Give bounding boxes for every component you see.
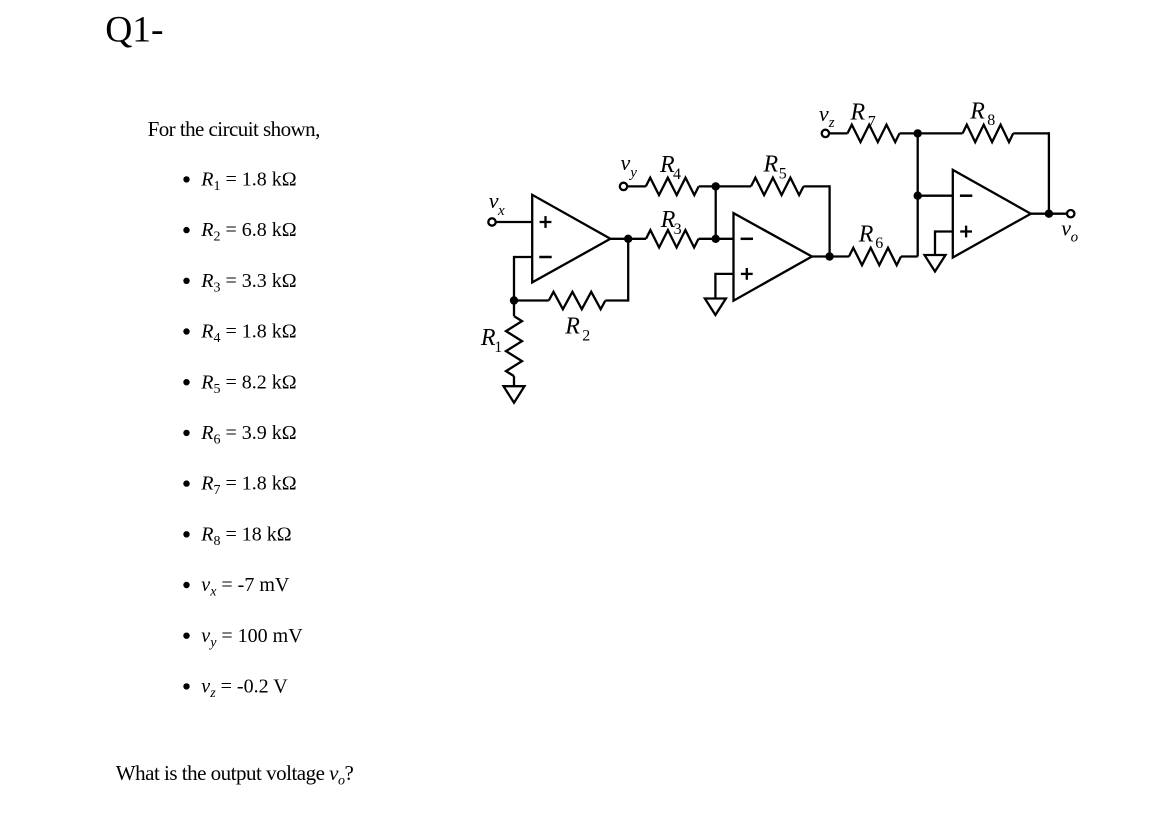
resistor R5 — [751, 178, 804, 195]
wire node C to R5 — [716, 185, 751, 187]
wire node F to R8 — [918, 132, 963, 134]
wire R8 to feedback corner — [1013, 132, 1049, 134]
svg-text:7: 7 — [868, 113, 876, 130]
wire vz to R7 — [829, 132, 847, 134]
resistor R7 — [848, 125, 900, 142]
svg-text:3: 3 — [674, 221, 682, 238]
svg-text:vy = 100 mV: vy = 100 mV — [201, 625, 303, 651]
wire vy to R4 — [627, 185, 646, 187]
terminal vz — [822, 130, 829, 137]
bullet item R8 — [183, 531, 189, 537]
terminal vy — [620, 183, 627, 190]
ground (below R1) — [504, 386, 525, 403]
resistor R8 — [963, 125, 1014, 142]
node G (U3 - input junction) — [914, 192, 922, 200]
wire R5 to feedback corner — [804, 185, 830, 187]
resistor R3 — [646, 230, 699, 247]
resistor R1 — [506, 316, 522, 376]
svg-text:z: z — [828, 115, 835, 131]
svg-text:8: 8 — [987, 112, 995, 129]
node B (U1 output) — [624, 235, 632, 243]
node H (U3 output) — [1045, 210, 1053, 218]
resistor R2 — [549, 292, 606, 309]
svg-text:1: 1 — [494, 339, 502, 356]
svg-text:R: R — [564, 314, 580, 340]
wire R2 to feedback riser — [605, 299, 628, 301]
wire + input down to ground — [934, 230, 936, 255]
svg-text:y: y — [628, 165, 637, 181]
wire feedback riser to U1 output — [627, 239, 629, 302]
node E (U2 output / R5 / R6 junction) — [825, 252, 833, 260]
svg-text:R: R — [763, 152, 779, 178]
bullet item R3 — [183, 278, 189, 284]
wire U2 output — [812, 255, 849, 257]
wire node D to U2 - input — [716, 238, 734, 240]
node A (R1/R2/U1- junction) — [510, 296, 518, 304]
wire vx to op-amp U1 + input — [496, 221, 533, 223]
ground (U3 + input) — [925, 255, 946, 272]
wire U3 + input stub — [935, 230, 953, 232]
svg-text:R: R — [858, 221, 874, 247]
wire U3 output to terminal — [1031, 213, 1067, 215]
node D (U2 - input junction) — [712, 235, 720, 243]
op-amp U1 — [532, 195, 610, 283]
svg-text:What is the output voltage vo?: What is the output voltage vo? — [116, 761, 354, 789]
svg-text:R: R — [969, 98, 985, 124]
wire U2 + input stub — [715, 273, 733, 275]
wire R4 to node C — [699, 185, 716, 187]
svg-text:5: 5 — [779, 165, 787, 182]
svg-text:v: v — [621, 150, 631, 175]
svg-text:For the circuit shown,: For the circuit shown, — [148, 117, 320, 141]
node C (R4/R5 junction) — [712, 182, 720, 190]
wire node A to R2 — [514, 299, 549, 301]
wire R3 to node D — [699, 238, 716, 240]
bullet item R7 — [183, 480, 189, 486]
bullet item vy — [183, 633, 189, 639]
resistor R4 — [646, 178, 699, 195]
wire node G to U3 - input — [918, 195, 953, 197]
svg-text:4: 4 — [673, 166, 681, 183]
bullet item R2 — [183, 227, 189, 233]
wire - input down to node A — [513, 256, 515, 301]
terminal vo — [1067, 210, 1074, 217]
wire R1 to ground — [513, 376, 515, 386]
wire + input down to ground — [714, 273, 716, 299]
svg-text:v: v — [819, 101, 829, 126]
wire node A to R1 — [513, 301, 515, 317]
wire feedback down to U2 output — [828, 185, 830, 256]
op-amp U2 — [734, 213, 812, 301]
bullet item R5 — [183, 379, 189, 385]
bullet item vx — [183, 582, 189, 588]
wire R7 to node F — [900, 132, 918, 134]
wire U1 output — [610, 238, 646, 240]
ground (U2 + input) — [705, 299, 726, 316]
bullet item R1 — [183, 176, 189, 182]
wire feedback down to U3 output — [1048, 132, 1050, 213]
svg-text:x: x — [497, 203, 505, 219]
node F (R7/R8 junction) — [914, 129, 922, 137]
wire R6 to riser — [901, 255, 918, 257]
terminal vx — [488, 218, 495, 225]
resistor R6 — [849, 248, 901, 265]
bullet item R6 — [183, 430, 189, 436]
svg-text:2: 2 — [582, 328, 590, 345]
svg-text:o: o — [1071, 230, 1079, 246]
svg-text:Q1-: Q1- — [105, 10, 163, 51]
bullet item R4 — [183, 328, 189, 334]
wire node F down through node G to R6 level — [917, 133, 919, 256]
wire node C down to node D — [715, 186, 717, 238]
svg-text:R: R — [850, 100, 866, 126]
bullet item vz — [183, 683, 189, 689]
op-amp U3 — [953, 170, 1031, 258]
svg-text:6: 6 — [875, 235, 883, 252]
wire U1 - input stub — [514, 256, 532, 258]
